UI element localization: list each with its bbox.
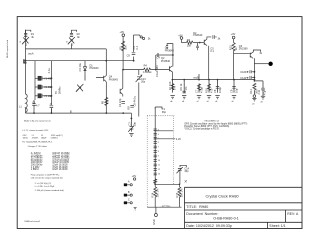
svg-text:- PC709 -: - PC709 - <box>161 206 172 209</box>
svg-text:and checks the unique standard: and checks the unique standard dot. <box>31 176 64 179</box>
svg-text:470p: 470p <box>199 87 203 93</box>
svg-text:Y0: Y0 <box>54 91 58 95</box>
svg-text:R5: R5 <box>119 46 123 50</box>
svg-text:4.20: 4.20 <box>176 138 181 141</box>
svg-text:4.7: 4.7 <box>36 104 40 107</box>
svg-text:oscA: oscA <box>28 52 34 55</box>
svg-text:oscB: oscB <box>193 77 199 80</box>
svg-text:30p: 30p <box>132 122 136 127</box>
svg-text:L = 3.3S/, C=u 0.22pF: L = 3.3S/, C=u 0.22pF <box>35 186 55 188</box>
svg-text:C6 44.1u: C6 44.1u <box>132 95 136 106</box>
svg-text:0.86Khz: 0.86Khz <box>51 137 58 139</box>
svg-text:47k: 47k <box>105 99 109 104</box>
svg-text:R6: R6 <box>101 100 105 104</box>
svg-text:O-BB-RH80-0-1: O-BB-RH80-0-1 <box>213 217 239 221</box>
svg-text:R9 1k: R9 1k <box>179 83 183 90</box>
svg-text:+9V: +9V <box>231 33 236 36</box>
svg-text:RH80 crystal clock: RH80 crystal clock <box>6 39 9 58</box>
svg-text:RH80-sch-trace1: RH80-sch-trace1 <box>25 220 42 223</box>
svg-text:30p: 30p <box>141 81 146 84</box>
svg-text:TITLE: RH80: TITLE: RH80 <box>186 205 208 209</box>
svg-text:470: 470 <box>209 88 213 93</box>
svg-text:8: 8 <box>158 151 159 153</box>
svg-text:Y1 4M: Y1 4M <box>44 77 51 80</box>
svg-text:0.1uF 16V: 0.1uF 16V <box>155 65 159 77</box>
svg-text:R15: R15 <box>175 192 179 197</box>
svg-text:PN3640: PN3640 <box>90 67 100 70</box>
svg-text:Date: 10/24/2012 09:09:33p: Date: 10/24/2012 09:09:33p <box>186 224 232 228</box>
svg-text:R10: R10 <box>205 88 209 93</box>
svg-text:OSC/24MHz sel: OSC/24MHz sel <box>204 121 219 123</box>
svg-text:Made to fly one crystal circui: Made to fly one crystal circuit <box>24 120 51 123</box>
svg-text:12: 12 <box>158 169 160 171</box>
svg-text:36p: 36p <box>162 111 167 114</box>
svg-text:*OSC2: Crystal package is RC-0: *OSC2: Crystal package is RC-0. <box>184 127 220 130</box>
svg-text:C8: C8 <box>213 89 217 93</box>
svg-text:PN3640: PN3640 <box>193 34 203 37</box>
svg-text:PN3640: PN3640 <box>161 60 171 63</box>
svg-text:10Khz: 10Khz <box>23 137 29 139</box>
svg-text:PN3645: PN3645 <box>109 78 119 81</box>
svg-text:0.1: 0.1 <box>245 71 249 74</box>
svg-text:C2 22p: C2 22p <box>118 98 122 107</box>
svg-text:C = L/(20 SQr) (C): C = L/(20 SQr) (C) <box>35 183 52 185</box>
svg-text:10k: 10k <box>124 45 128 50</box>
svg-text:R12: R12 <box>228 45 232 50</box>
svg-text:Document Number:: Document Number: <box>186 212 218 216</box>
svg-text:10uH 16.0018: 10uH 16.0018 <box>52 168 68 171</box>
svg-text:0.1: 0.1 <box>135 45 139 49</box>
svg-text:C 400 pF (chosen standard dub): C 400 pF (chosen standard dub) <box>35 189 64 192</box>
svg-text:R8: R8 <box>126 106 130 110</box>
svg-text:C11: C11 <box>257 89 261 94</box>
svg-text:10p: 10p <box>234 88 238 93</box>
svg-text:C7t: C7t <box>128 121 132 125</box>
svg-text:Y3 1M: Y3 1M <box>44 95 51 98</box>
svg-text:4.99 Ek: 4.99 Ek <box>143 71 152 74</box>
svg-text:PN3640: PN3640 <box>165 49 175 52</box>
svg-text:0.1: 0.1 <box>245 77 249 80</box>
svg-text:Y2 8M: Y2 8M <box>44 86 51 89</box>
svg-text:16Mhz: 16Mhz <box>57 86 61 94</box>
svg-text:10: 10 <box>158 160 160 162</box>
svg-text:0.1u: 0.1u <box>47 68 51 74</box>
svg-text:7: 7 <box>158 147 159 149</box>
svg-text:13: 13 <box>158 174 160 176</box>
svg-text:2N2369: 2N2369 <box>239 48 248 51</box>
svg-text:R7 100: R7 100 <box>168 81 172 90</box>
svg-text:5: 5 <box>158 138 159 140</box>
svg-text:+9V: +9V <box>132 175 137 178</box>
svg-text:C: C <box>128 199 130 202</box>
svg-text:100p: 100p <box>218 87 222 93</box>
svg-text:Sheet: 1/1: Sheet: 1/1 <box>269 224 285 228</box>
svg-text:Freq computes to 1/(2Pi*FT*PL): Freq computes to 1/(2Pi*FT*PL) <box>31 174 60 177</box>
svg-text:+9V: +9V <box>120 31 125 34</box>
svg-text:3: 3 <box>158 130 159 132</box>
svg-text:C7: C7 <box>195 89 199 93</box>
svg-text:0.1: 0.1 <box>210 50 214 53</box>
svg-text:180pF: 180pF <box>41 137 47 139</box>
svg-text:Changes 1 YXO dates: Changes 1 YXO dates <box>28 145 47 148</box>
svg-text:L1, C1: chosen to match OSC: L1, C1: chosen to match OSC <box>23 129 49 132</box>
svg-text:REV: A: REV: A <box>287 212 299 216</box>
svg-text:R14: R14 <box>151 192 155 197</box>
svg-text:C9: C9 <box>230 89 234 93</box>
svg-text:47p: 47p <box>263 90 267 95</box>
svg-text:100 1%: 100 1% <box>180 188 184 197</box>
svg-text:+9V: +9V <box>178 34 183 37</box>
svg-text:Crystal Clock RH80: Crystal Clock RH80 <box>205 194 238 198</box>
svg-text:1.8Mhz: 1.8Mhz <box>31 168 40 171</box>
svg-text:9: 9 <box>158 156 159 158</box>
svg-text:GND: GND <box>152 219 156 225</box>
svg-text:6: 6 <box>158 142 159 144</box>
svg-text:4: 4 <box>158 134 159 136</box>
svg-text:R11: R11 <box>249 89 253 94</box>
svg-text:C3 10u: C3 10u <box>78 63 82 72</box>
svg-text:36p: 36p <box>184 170 189 173</box>
svg-text:Re: Teq(10uH/49-TF-234659-TF-2: Re: Teq(10uH/49-TF-234659-TF-2 <box>23 142 52 144</box>
svg-text:470mH: 470mH <box>32 137 39 139</box>
svg-text:100 1%: 100 1% <box>155 188 159 197</box>
svg-text:11: 11 <box>158 165 160 167</box>
